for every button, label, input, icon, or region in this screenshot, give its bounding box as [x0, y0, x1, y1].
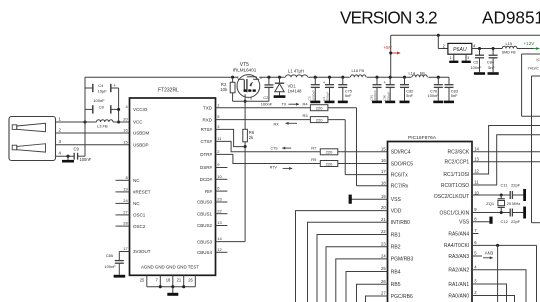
svg-text:#RESET: #RESET — [133, 190, 151, 195]
wire drain — [259, 76, 449, 79]
svg-text:RX: RX — [274, 122, 280, 126]
svg-text:L16 FB: L16 FB — [352, 68, 365, 73]
wire VBUS pin1 — [56, 120, 97, 123]
resistor R4 220 — [303, 102, 328, 111]
ground C81 — [372, 101, 382, 104]
svg-text:25: 25 — [381, 266, 386, 271]
ground C12 — [523, 207, 526, 219]
svg-text:CBUS0: CBUS0 — [197, 200, 213, 205]
title VERSION 3.2 — [340, 8, 437, 28]
wire RA2/AN2 — [472, 270, 526, 302]
wire USBDP pin3 — [56, 144, 130, 146]
capacitor C83 5nF — [445, 77, 459, 100]
wire +5V up — [389, 35, 392, 77]
svg-text:C11: C11 — [501, 183, 509, 188]
gate net — [233, 94, 269, 129]
svg-text:11: 11 — [474, 180, 479, 185]
svg-text:OSC1/CLKIN: OSC1/CLKIN — [439, 210, 469, 216]
svg-text:IC: IC — [537, 58, 540, 62]
svg-text:24: 24 — [123, 198, 128, 203]
svg-text:CBUS2: CBUS2 — [197, 223, 213, 228]
capacitor C4 10uF — [85, 83, 119, 94]
svg-text:C4: C4 — [98, 83, 104, 88]
crystal ZQ1 20MHz — [486, 195, 520, 213]
wire USBDM pin2 — [56, 132, 130, 134]
svg-text:19: 19 — [123, 187, 128, 192]
svg-text:CBUS3: CBUS3 — [197, 239, 213, 244]
ground near USB — [62, 156, 74, 161]
IC U1 label — [158, 88, 179, 94]
title AD9851 — [482, 8, 540, 28]
svg-text:TX: TX — [282, 103, 287, 107]
svg-text:C84: C84 — [487, 59, 495, 64]
wire cap right vertical — [117, 88, 120, 124]
capacitor C2 100nF — [261, 77, 274, 106]
svg-text:12: 12 — [217, 247, 222, 252]
svg-text:R3: R3 — [303, 113, 309, 118]
wire RC3/SCK — [472, 151, 540, 153]
svg-text:13: 13 — [474, 156, 479, 161]
svg-text:220: 220 — [316, 106, 323, 111]
svg-text:74LVC: 74LVC — [528, 66, 540, 70]
svg-text:SMD FB: SMD FB — [502, 51, 516, 55]
resistor R6 2k — [243, 129, 255, 148]
wire R9 to PIC SDO — [338, 163, 388, 165]
capacitor C12 22pF — [501, 209, 524, 224]
svg-text:C2: C2 — [263, 95, 269, 100]
svg-text:20: 20 — [123, 117, 128, 122]
svg-text:VERSION 3.2: VERSION 3.2 — [340, 8, 437, 28]
svg-text:19: 19 — [381, 194, 386, 199]
svg-text:RB4: RB4 — [391, 269, 401, 275]
svg-text:14: 14 — [217, 236, 222, 241]
svg-text:SDI/RC4: SDI/RC4 — [391, 150, 411, 156]
ground C76 — [433, 101, 443, 104]
svg-text:1n4148: 1n4148 — [288, 89, 303, 94]
svg-text:RA0/AN0: RA0/AN0 — [448, 293, 469, 299]
svg-text:220: 220 — [316, 117, 323, 122]
ground C75 — [338, 101, 348, 104]
svg-text:OSC2: OSC2 — [133, 224, 146, 229]
capacitor C5 100nF — [471, 49, 485, 73]
net label RX — [274, 122, 298, 127]
svg-text:USBDP: USBDP — [133, 143, 149, 148]
wire R3 to PIC RC6 — [328, 120, 388, 175]
ground C82 — [400, 101, 410, 104]
svg-text:220: 220 — [326, 161, 333, 166]
svg-text:DCD#: DCD# — [200, 177, 213, 182]
USB pin 1 label — [59, 116, 62, 121]
svg-text:15: 15 — [123, 139, 128, 144]
resistor R2 10k — [220, 77, 235, 101]
svg-text:26: 26 — [188, 278, 193, 283]
svg-text:6: 6 — [250, 96, 252, 100]
capacitor C82 5nF — [400, 77, 414, 100]
svg-text:R7: R7 — [311, 145, 317, 150]
svg-text:RB1: RB1 — [391, 232, 401, 238]
svg-text:CBUS4: CBUS4 — [197, 250, 213, 255]
svg-text:1: 1 — [450, 56, 452, 60]
svg-text:RA4/T0CKI: RA4/T0CKI — [444, 243, 469, 249]
svg-text:PIC16F876A: PIC16F876A — [408, 135, 437, 141]
wire GND pin4 — [56, 155, 75, 158]
capacitor C9 — [74, 146, 92, 162]
IC U3 PIC16F876A box — [388, 142, 473, 302]
inductor L15 SMD FB — [502, 41, 533, 55]
svg-text:RI#: RI# — [205, 189, 213, 194]
svg-text:RA5/AN4: RA5/AN4 — [448, 231, 469, 237]
PIC VSS right ground — [472, 217, 491, 224]
capacitor C11 22pF — [501, 183, 524, 199]
svg-text:+: + — [113, 83, 116, 88]
wire gate to CBUS3 — [244, 147, 246, 242]
svg-text:150µF: 150µF — [326, 92, 330, 101]
svg-text:14: 14 — [474, 146, 479, 151]
svg-text:L15: L15 — [506, 41, 513, 46]
PIC VSS left ground — [350, 195, 387, 204]
wire RA5 stub — [472, 233, 479, 235]
svg-text:C5: C5 — [473, 59, 478, 64]
svg-text:17: 17 — [381, 169, 386, 174]
svg-text:RXD: RXD — [202, 117, 212, 122]
svg-text:+: + — [323, 80, 326, 85]
svg-text:12: 12 — [474, 169, 479, 174]
svg-text:+: + — [383, 80, 386, 85]
svg-text:R9: R9 — [311, 157, 317, 162]
svg-text:SDO/RC5: SDO/RC5 — [391, 161, 413, 167]
svg-text:220: 220 — [326, 150, 333, 155]
net label AN3 — [483, 251, 494, 260]
ground C11 — [523, 189, 526, 201]
svg-text:VCCIO: VCCIO — [133, 107, 148, 112]
svg-text:3: 3 — [467, 56, 469, 60]
wire RB bus nested — [308, 222, 388, 302]
svg-text:VSS: VSS — [459, 220, 470, 226]
wire T0CKI branch down — [497, 245, 499, 302]
net label +12V — [524, 41, 540, 50]
ground VD1 — [274, 95, 286, 98]
svg-text:VDD: VDD — [391, 208, 402, 214]
svg-text:+5V: +5V — [384, 45, 393, 50]
P6AU pin4 label — [473, 44, 476, 49]
wire RA1/AN1 — [472, 284, 507, 302]
wire RC1/T1OSI — [472, 126, 540, 175]
ground C83 — [444, 101, 454, 104]
svg-text:23: 23 — [217, 197, 222, 202]
net label RTV — [270, 165, 292, 170]
IC 74LVC box — [522, 54, 540, 116]
svg-text:INT/RB0: INT/RB0 — [391, 220, 410, 226]
svg-text:20 MHz: 20 MHz — [507, 201, 521, 206]
svg-text:CBUS1: CBUS1 — [197, 211, 213, 216]
svg-text:25: 25 — [140, 278, 145, 283]
wire DTR — [216, 154, 321, 163]
ground FT232 — [167, 287, 178, 295]
svg-text:22pF: 22pF — [511, 183, 521, 188]
wire RA3 stub — [472, 255, 482, 257]
svg-text:RA1/AN1: RA1/AN1 — [448, 282, 469, 288]
svg-text:PGM/RB3: PGM/RB3 — [391, 257, 414, 263]
net label +5V — [384, 45, 401, 55]
ferrite bead L3 — [97, 120, 130, 129]
svg-text:FB: FB — [420, 70, 425, 75]
wire OSC2 — [472, 193, 510, 196]
svg-text:RB5: RB5 — [391, 282, 401, 288]
svg-text:5nF: 5nF — [345, 93, 352, 98]
ground C80 — [385, 101, 395, 104]
svg-text:TXD: TXD — [203, 105, 213, 110]
svg-text:DTR#: DTR# — [200, 152, 212, 157]
svg-text:ZQ1: ZQ1 — [486, 201, 495, 206]
wire CBUS3 — [216, 241, 246, 243]
svg-text:C85: C85 — [106, 253, 114, 258]
net label CTS — [271, 147, 292, 151]
svg-text:5nF: 5nF — [451, 93, 458, 98]
capacitor C85 — [104, 252, 123, 275]
wire VBUS vertical — [84, 77, 86, 156]
svg-text:P6AU: P6AU — [453, 47, 467, 53]
svg-text:L1 47µH: L1 47µH — [288, 68, 304, 73]
svg-text:RA3/AN3: RA3/AN3 — [448, 254, 469, 260]
svg-text:RC6/Tx: RC6/Tx — [391, 172, 408, 178]
capacitor C3 — [308, 77, 320, 100]
svg-text:OSC2/CLKOUT: OSC2/CLKOUT — [434, 194, 469, 200]
resistor R3 220 — [303, 113, 328, 122]
inductor L16 — [350, 68, 367, 81]
svg-text:L14: L14 — [409, 70, 416, 75]
svg-text:5nF: 5nF — [488, 65, 495, 70]
svg-text:17: 17 — [123, 246, 128, 251]
svg-text:IRLML6401: IRLML6401 — [233, 68, 257, 73]
ground C85 — [114, 275, 126, 278]
wire RC2/CCP1 — [472, 161, 540, 163]
FT232 bottom labels — [141, 265, 199, 270]
ground C3 — [310, 101, 320, 104]
svg-text:L3 FB: L3 FB — [97, 124, 108, 129]
svg-text:20: 20 — [381, 205, 386, 210]
svg-text:100nF: 100nF — [261, 102, 273, 107]
svg-text:RB2: RB2 — [391, 245, 401, 251]
svg-text:AN3: AN3 — [485, 251, 494, 256]
svg-text:VCC: VCC — [133, 120, 143, 125]
svg-text:16: 16 — [381, 158, 386, 163]
resistor R9 220 — [311, 157, 338, 166]
svg-text:NC: NC — [133, 201, 140, 206]
wire R4 to PIC RC7 — [328, 108, 388, 186]
svg-text:24: 24 — [381, 254, 386, 259]
capacitor C1 — [322, 77, 334, 100]
wire 3V3OUT — [119, 251, 129, 253]
svg-text:1000nF: 1000nF — [373, 90, 377, 101]
inductor L14 — [409, 70, 429, 80]
ground C84 — [488, 72, 499, 75]
svg-text:150µF: 150µF — [386, 92, 390, 101]
wire OSC1 — [472, 211, 510, 214]
USB pin 2 label — [59, 127, 62, 132]
IC U3 label — [408, 135, 437, 141]
svg-text:22: 22 — [381, 229, 386, 234]
svg-text:18: 18 — [381, 180, 386, 185]
svg-text:RC3/SCK: RC3/SCK — [448, 150, 470, 156]
ground P6AU pin3 — [462, 54, 471, 62]
wire VDD bus — [296, 211, 388, 302]
svg-text:5nF: 5nF — [406, 93, 413, 98]
svg-text:CTS: CTS — [271, 147, 279, 151]
svg-text:AD9851: AD9851 — [482, 8, 540, 28]
svg-text:3V3OUT: 3V3OUT — [133, 249, 151, 254]
wire RA0/AN0 — [472, 296, 515, 302]
svg-text:RTV: RTV — [270, 165, 278, 169]
wire RA4/T0CKI — [472, 244, 537, 302]
FT232 ground pins — [140, 275, 196, 288]
wire top +5V — [391, 34, 540, 37]
svg-text:RC1/T1OSI: RC1/T1OSI — [443, 172, 469, 178]
svg-text:21: 21 — [381, 217, 386, 222]
capacitor C76 100nF — [428, 77, 443, 100]
svg-text:26: 26 — [381, 279, 386, 284]
PIC right pin labels — [434, 146, 480, 299]
IC U1 FT232RL box — [130, 98, 216, 275]
P6AU pin2 label — [443, 44, 446, 49]
svg-text:100nF: 100nF — [104, 264, 116, 269]
USB pin 4 label — [59, 151, 62, 156]
resistor R7 220 — [311, 145, 338, 154]
wire R7 to PIC SDI — [338, 151, 388, 153]
svg-text:+12V: +12V — [524, 41, 536, 46]
svg-text:PGC/RB6: PGC/RB6 — [391, 294, 413, 300]
FT232 right pins — [197, 102, 227, 255]
svg-text:13: 13 — [217, 220, 222, 225]
svg-text:27: 27 — [381, 291, 386, 296]
capacitor C75 5nF — [338, 77, 352, 100]
svg-text:CTS#: CTS# — [200, 139, 212, 144]
net label TX — [282, 103, 300, 107]
ground C5 — [474, 72, 485, 75]
svg-text:1000nF: 1000nF — [311, 90, 315, 101]
capacitor C81 — [369, 77, 381, 100]
ground C1 — [325, 101, 335, 104]
svg-text:10k: 10k — [220, 87, 228, 92]
svg-text:28: 28 — [123, 221, 128, 226]
USB connector — [9, 117, 56, 161]
svg-text:R4: R4 — [303, 102, 309, 107]
wire TXD — [216, 107, 311, 109]
svg-text:OSC1: OSC1 — [133, 213, 146, 218]
svg-text:DSR#: DSR# — [200, 165, 213, 170]
wire RC0/T1OSO — [472, 135, 540, 185]
VT5 label — [233, 62, 257, 73]
svg-text:16: 16 — [123, 128, 128, 133]
capacitor C8 100nF — [85, 98, 119, 113]
diode VD1 1n4148 — [275, 77, 302, 95]
capacitor C80 — [383, 77, 395, 100]
svg-text:22: 22 — [217, 208, 222, 213]
svg-text:23: 23 — [381, 241, 386, 246]
svg-text:18: 18 — [166, 278, 171, 283]
wire P6AU out — [472, 47, 503, 50]
svg-text:C8: C8 — [99, 104, 105, 109]
svg-text:USBDM: USBDM — [133, 131, 150, 136]
inductor L1 47uH — [285, 68, 308, 80]
capacitor C84 5nF — [487, 49, 498, 73]
svg-text:27: 27 — [123, 210, 128, 215]
svg-text:FT232RL: FT232RL — [158, 88, 179, 94]
svg-text:100nF: 100nF — [93, 98, 105, 103]
FT232 left pins — [116, 104, 151, 254]
transistor VT5 IRLML6401 — [237, 75, 262, 101]
svg-text:21: 21 — [177, 278, 182, 283]
svg-text:NC: NC — [133, 178, 140, 183]
wire right loop — [532, 76, 540, 223]
svg-text:10: 10 — [217, 174, 222, 179]
svg-text:100nF: 100nF — [80, 157, 92, 162]
svg-text:RC2/CCP1: RC2/CCP1 — [444, 160, 469, 166]
svg-text:100nF: 100nF — [428, 93, 440, 98]
svg-text:15: 15 — [381, 146, 386, 151]
svg-text:RA2/AN2: RA2/AN2 — [448, 268, 469, 274]
PIC left pin labels — [381, 146, 413, 299]
svg-text:RC7/Rx: RC7/Rx — [391, 184, 409, 190]
svg-text:22pF: 22pF — [511, 219, 521, 224]
svg-text:10µF: 10µF — [98, 89, 108, 94]
wire P6AU input drop — [438, 35, 448, 48]
wire RTS — [216, 129, 246, 146]
svg-text:C9: C9 — [74, 146, 80, 151]
regulator U2 P6AU — [448, 43, 472, 54]
wire RXD — [216, 119, 311, 121]
ground P6AU pin1 — [449, 54, 458, 62]
svg-text:100nF: 100nF — [471, 65, 483, 70]
svg-text:AGND GND GND GND TEST: AGND GND GND GND TEST — [141, 265, 199, 270]
USB pin 3 label — [59, 139, 62, 144]
wire CTS — [216, 141, 321, 151]
svg-text:RTS#: RTS# — [201, 127, 213, 132]
svg-text:RC0/T1OSO: RC0/T1OSO — [441, 183, 469, 189]
svg-text:VSS: VSS — [391, 197, 402, 203]
wire +5V rail — [85, 76, 238, 79]
svg-text:C12: C12 — [501, 219, 509, 224]
